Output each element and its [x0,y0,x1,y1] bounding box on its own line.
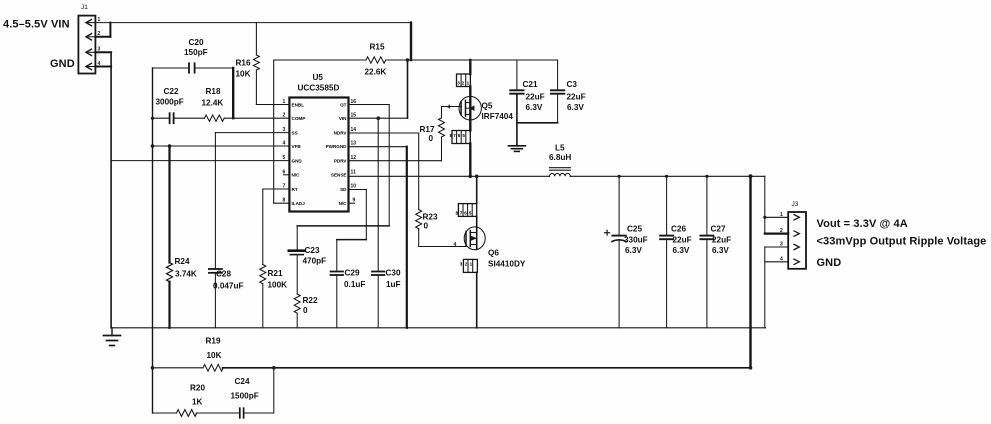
svg-text:22.6K: 22.6K [365,68,387,77]
svg-text:C23: C23 [305,246,320,255]
svg-text:N/C: N/C [292,173,301,178]
svg-text:11: 11 [351,169,357,175]
svg-text:3.74K: 3.74K [175,270,197,279]
svg-text:C20: C20 [189,38,204,47]
svg-text:4: 4 [448,105,451,111]
svg-text:1500pF: 1500pF [231,392,259,401]
svg-text:L5: L5 [555,144,565,153]
svg-text:2: 2 [462,81,465,86]
svg-text:22uF: 22uF [712,236,731,245]
svg-text:R17: R17 [420,125,435,134]
svg-text:PDRV: PDRV [334,158,348,163]
svg-text:J3: J3 [792,201,799,208]
svg-text:N/C: N/C [339,201,348,206]
svg-text:NDRV: NDRV [334,130,348,135]
svg-text:3: 3 [98,47,101,53]
svg-text:C25: C25 [627,225,642,234]
svg-text:R22: R22 [303,296,318,305]
svg-text:1: 1 [283,99,286,105]
svg-text:C3: C3 [567,80,578,89]
svg-text:22uF: 22uF [526,92,545,101]
svg-text:R19: R19 [206,337,221,346]
svg-text:J1: J1 [81,4,88,11]
svg-text:6.8uH: 6.8uH [549,153,571,162]
svg-text:IRF7404: IRF7404 [482,112,514,121]
svg-text:C22: C22 [164,87,179,96]
svg-text:6: 6 [283,169,286,175]
svg-text:6.3V: 6.3V [712,246,729,255]
svg-text:3: 3 [460,262,463,267]
svg-text:SD: SD [340,187,347,192]
svg-text:RT: RT [292,187,298,192]
svg-text:3: 3 [457,81,460,86]
svg-text:R24: R24 [175,257,190,266]
svg-text:SI4410DY: SI4410DY [488,260,526,269]
svg-text:2: 2 [98,31,101,37]
svg-text:VIN: VIN [339,116,347,121]
svg-text:8: 8 [450,133,453,138]
svg-text:12: 12 [351,155,357,161]
svg-text:2: 2 [283,113,286,119]
svg-text:6: 6 [464,211,467,216]
svg-text:2: 2 [780,228,783,234]
svg-text:6: 6 [458,133,461,138]
svg-text:470pF: 470pF [303,257,327,266]
svg-text:0.047uF: 0.047uF [213,282,244,291]
svg-text:22uF: 22uF [567,92,586,101]
svg-text:9: 9 [353,198,356,204]
svg-text:10: 10 [351,184,357,190]
svg-text:7: 7 [453,133,456,138]
svg-text:2: 2 [465,262,468,267]
svg-text:SENSE: SENSE [331,173,347,178]
svg-text:COMP: COMP [292,116,306,121]
svg-text:4.5–5.5V VIN: 4.5–5.5V VIN [3,19,70,31]
svg-text:ILADJ: ILADJ [292,201,306,206]
svg-text:C30: C30 [386,269,401,278]
svg-text:C29: C29 [345,269,360,278]
svg-text:10K: 10K [207,351,222,360]
svg-text:GND: GND [817,257,842,269]
svg-text:OT: OT [340,102,347,107]
svg-text:100K: 100K [268,281,288,290]
svg-text:1uF: 1uF [386,280,401,289]
svg-text:1K: 1K [192,398,203,407]
svg-text:4: 4 [780,256,783,262]
svg-text:4: 4 [283,141,286,147]
svg-text:PWRGND: PWRGND [326,144,348,149]
svg-text:Q6: Q6 [488,249,499,258]
svg-text:5: 5 [469,211,472,216]
svg-text:C21: C21 [523,80,538,89]
svg-text:1: 1 [780,212,783,218]
svg-text:22uF: 22uF [673,236,692,245]
svg-text:GND: GND [50,58,75,70]
svg-text:5: 5 [283,155,286,161]
svg-text:1: 1 [98,17,101,23]
svg-text:<33mVpp Output Ripple Voltage: <33mVpp Output Ripple Voltage [817,236,987,248]
svg-text:Vout = 3.3V @ 4A: Vout = 3.3V @ 4A [817,218,908,230]
svg-text:330uF: 330uF [624,236,648,245]
svg-text:3: 3 [283,127,286,133]
svg-text:8: 8 [283,198,286,204]
svg-text:3000pF: 3000pF [156,98,184,107]
svg-text:R20: R20 [190,384,205,393]
svg-text:0.1uF: 0.1uF [344,280,365,289]
svg-text:C26: C26 [671,225,686,234]
svg-text:Q5: Q5 [482,102,493,111]
svg-text:6.3V: 6.3V [567,103,584,112]
svg-text:13: 13 [351,141,357,147]
svg-text:4: 4 [454,242,457,248]
svg-text:6.3V: 6.3V [673,246,690,255]
svg-text:0: 0 [303,306,308,315]
svg-text:C27: C27 [711,225,726,234]
svg-text:0: 0 [424,222,429,231]
svg-text:5: 5 [462,133,465,138]
svg-text:8: 8 [456,211,459,216]
svg-text:R15: R15 [370,43,385,52]
svg-text:15: 15 [351,113,357,119]
svg-text:3: 3 [780,242,783,248]
svg-text:R23: R23 [423,213,438,222]
svg-text:7: 7 [283,184,286,190]
svg-text:U5: U5 [313,73,324,82]
svg-text:6.3V: 6.3V [526,103,543,112]
svg-text:C28: C28 [216,270,231,279]
svg-text:7: 7 [460,211,463,216]
svg-text:VFB: VFB [292,144,302,149]
svg-text:14: 14 [351,127,357,133]
svg-text:1: 1 [470,262,473,267]
svg-text:ENBL: ENBL [292,102,305,107]
svg-text:R21: R21 [268,269,283,278]
svg-text:150pF: 150pF [184,48,208,57]
svg-text:GND: GND [292,158,303,163]
svg-text:16: 16 [351,99,357,105]
svg-text:10K: 10K [236,70,251,79]
svg-text:0: 0 [429,134,434,143]
svg-text:R16: R16 [236,59,251,68]
svg-text:C24: C24 [235,377,250,386]
svg-text:R18: R18 [206,87,221,96]
svg-text:12.4K: 12.4K [202,98,224,107]
svg-text:SS: SS [292,130,298,135]
svg-text:1: 1 [467,81,470,86]
svg-text:UCC3585D: UCC3585D [298,84,340,93]
svg-text:4: 4 [98,61,101,67]
svg-text:6.3V: 6.3V [625,246,642,255]
